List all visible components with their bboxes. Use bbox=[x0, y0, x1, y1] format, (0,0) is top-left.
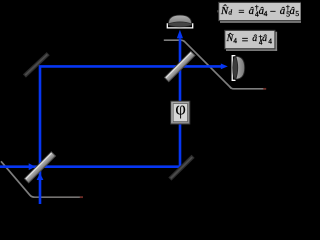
lens surface bbox=[236, 56, 245, 79]
wire: gray output beam 5 horizontal upper segment bbox=[164, 40, 185, 42]
arrowhead: input beam toward BS1 (up) bbox=[37, 173, 44, 180]
label box: N4 = a4†a4 bbox=[225, 30, 277, 51]
lens edge ellipse bbox=[233, 56, 238, 80]
mirror M1 (top-left) bbox=[24, 54, 48, 76]
detector D4 (lens, right) bbox=[232, 56, 245, 81]
arrowhead: output beam toward detector D4 (right) bbox=[221, 64, 228, 70]
wire: blue bottom arm and right arm through phase shifter up to BS2 bbox=[0, 38, 180, 166]
node: red tip of gray beam (bottom) bbox=[80, 196, 83, 198]
detector Dd (dome, top) bbox=[167, 15, 192, 28]
white bracket base bbox=[232, 56, 235, 81]
beam splitter BS1 (bottom-left) bbox=[24, 152, 55, 183]
svg-text:φ: φ bbox=[175, 99, 186, 119]
lens edge ellipse bbox=[168, 22, 191, 27]
wire: gray output beam 5 horizontal lower segment bbox=[230, 87, 266, 89]
phase shifter box bbox=[171, 99, 190, 124]
wire: gray input beam a5 horizontal (bottom-left) bbox=[33, 196, 83, 198]
arrowhead: input beam toward BS1 (right) bbox=[29, 163, 36, 170]
wire: gray output beam 5 diagonal bbox=[184, 41, 232, 89]
beam splitter BS2 (top-right) bbox=[165, 51, 196, 82]
arrowhead: output beam toward dome detector (up) bbox=[177, 30, 183, 38]
dome surface bbox=[168, 15, 191, 24]
label box: Nd = a4†a4 − a5†a5 bbox=[217, 2, 301, 22]
mirror M2 (bottom-right) bbox=[170, 156, 193, 179]
wire: gray input beam a5 diagonal (bottom-left) bbox=[1, 161, 35, 197]
wire: blue input beam from bottom, left arm up and top arm right to detector D4 bbox=[40, 66, 223, 204]
white bracket base bbox=[167, 23, 192, 28]
node: red tip of gray beam (right) bbox=[263, 88, 266, 90]
